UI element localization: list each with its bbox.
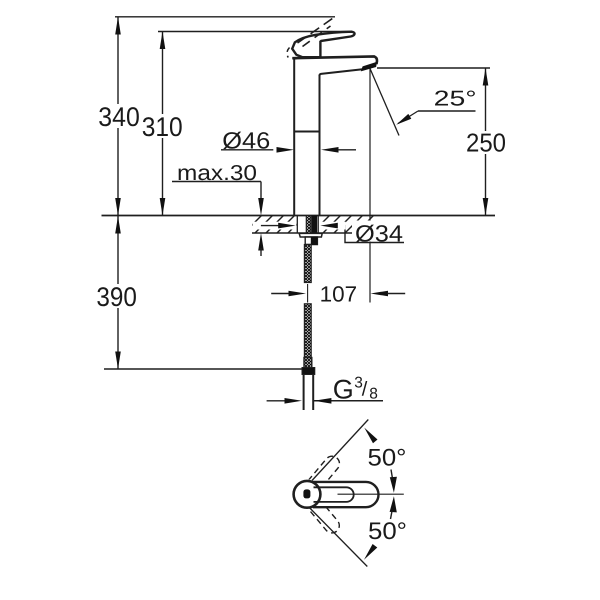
G3/8 arrow pointing left at pipe [314, 398, 332, 404]
svg-text:8: 8 [369, 386, 378, 403]
25 deg leader [398, 111, 418, 124]
107 dimension [271, 293, 289, 295]
svg-text:Ø46: Ø46 [222, 127, 270, 153]
spout underside [319, 69, 362, 76]
svg-text:50°: 50° [368, 518, 407, 545]
max.30 leader vertical [260, 182, 262, 203]
plan centerline [338, 493, 404, 495]
upper leg arrowhead [364, 428, 377, 444]
dimension line 250 [485, 68, 487, 216]
aerator wedge [361, 62, 377, 72]
extension line from spout tip vertical [369, 68, 371, 303]
deck bottom line [252, 232, 377, 234]
white background behind dia34 text (interrupts vertical line) [352, 221, 404, 242]
angle arrows at centerline lower [390, 496, 397, 512]
shank black bar [311, 216, 317, 234]
lower 50 leg [310, 508, 368, 567]
nut under washer [305, 237, 317, 245]
svg-text:50°: 50° [368, 445, 407, 472]
svg-text:107: 107 [320, 282, 358, 307]
arrow 310 bottom [160, 198, 166, 216]
dia34 leader polyline [338, 226, 405, 243]
hose segment 1 [304, 245, 311, 283]
G3/8 small left arrow [267, 400, 286, 402]
arrow 390 bottom [115, 352, 121, 370]
lower leg arrowhead [364, 544, 377, 560]
threaded rod upper [306, 216, 311, 234]
plan outer rounded rect [313, 482, 379, 507]
dashed lever rotated down [303, 493, 342, 536]
washer under deck [299, 233, 322, 237]
hose segment 2 [304, 304, 311, 358]
bottom reference line 390 [104, 368, 315, 370]
svg-text:25°: 25° [434, 87, 477, 111]
text labels [96, 102, 506, 312]
shank right line [317, 216, 319, 234]
dashed arc ghost left [287, 48, 289, 58]
faucet body column [294, 58, 319, 215]
dimension line 340 [117, 17, 119, 216]
svg-text:390: 390 [96, 282, 136, 312]
plan lever blob [303, 489, 310, 498]
arrow 340 bottom [115, 198, 121, 216]
upper 50 leg [312, 420, 368, 481]
svg-text:340: 340 [98, 102, 140, 132]
deck hatch right [312, 216, 385, 234]
arrow 310 top [160, 32, 166, 50]
25 deg arrowhead [396, 114, 411, 125]
white bands behind dia34 arrows [253, 222, 297, 230]
25 deg label underline [418, 110, 476, 112]
svg-text:Ø34: Ø34 [355, 220, 403, 246]
svg-text:250: 250 [466, 128, 506, 158]
arrow 390 top [115, 216, 121, 234]
angle arrows at centerline upper [391, 470, 392, 479]
arrow 250 bottom [483, 198, 489, 216]
svg-text:max.30: max.30 [177, 161, 257, 185]
max.30 arrow up below deck [258, 233, 264, 251]
svg-text:G: G [333, 375, 354, 405]
hose end nut [302, 368, 315, 375]
dashed lever rotated up [303, 453, 342, 536]
dia46 right arrow [321, 147, 339, 153]
shank hole left line [296, 216, 298, 234]
deck hatch left [244, 216, 306, 234]
max.30 leader underline [172, 181, 261, 183]
dia46 left arrow [277, 147, 295, 153]
counter reference line [102, 215, 496, 217]
dashed raised lever line B [303, 26, 331, 47]
arrow 340 top [115, 17, 121, 35]
G3/8 pipe [304, 375, 314, 411]
svg-text:/: / [362, 378, 368, 400]
dimension line 390 [117, 216, 119, 370]
arrow 250 top [483, 68, 489, 86]
extension line top 340 level [115, 16, 335, 18]
G3/8 dimension line [314, 400, 383, 402]
dashed raised lever line A [298, 17, 335, 43]
25 deg stream line [370, 69, 399, 136]
dia34 right arrow [320, 223, 338, 229]
plan circle [294, 481, 321, 508]
dia34 left arrow [261, 225, 279, 227]
spout outline [292, 56, 377, 64]
handle outline [292, 32, 354, 58]
hose centerline gap [307, 284, 309, 303]
extension line 310 level [158, 31, 351, 33]
dimension line 310 [162, 32, 164, 216]
body seam line [294, 131, 319, 133]
max.30 arrow down [258, 198, 264, 216]
plan inner lever rounded rect [314, 487, 354, 502]
svg-text:310: 310 [142, 112, 183, 142]
extension line 250 top [377, 67, 490, 69]
hose crimp [304, 358, 312, 368]
dia46 underline [221, 149, 273, 151]
